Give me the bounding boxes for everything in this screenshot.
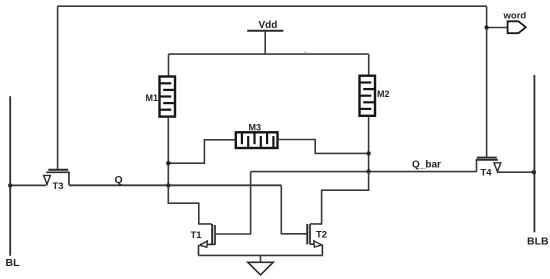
wire Q_bar main xyxy=(251,171,477,173)
svg-text:M2: M2 xyxy=(377,89,390,99)
wire word line right drop to T4 gate xyxy=(486,6,488,157)
wire tiny stub on top rail xyxy=(305,52,307,54)
wire Q left segment from BL xyxy=(10,184,46,186)
transistor T4 xyxy=(476,158,501,172)
node M2 branch / M3 junction xyxy=(366,151,370,155)
wire T4 right to BLB xyxy=(497,171,534,173)
transistor T3 xyxy=(44,170,70,186)
word output arrow xyxy=(508,21,526,33)
wire T2 gate lead from Q xyxy=(281,185,306,234)
wire BLB line xyxy=(533,75,535,232)
wire BL line xyxy=(9,96,11,256)
transistor T2 xyxy=(307,224,322,255)
wire T2 drain riser to Q_bar xyxy=(310,172,369,224)
memristor M3 xyxy=(236,132,278,148)
svg-text:M1: M1 xyxy=(146,93,159,103)
power Vdd bar xyxy=(247,30,283,32)
memristor M2 xyxy=(360,76,376,116)
wire M2 branch xyxy=(368,116,370,172)
wire word line left drop to T3 gate xyxy=(57,6,59,169)
node M1 branch / M3 junction xyxy=(166,161,170,165)
wire Q main segment xyxy=(69,184,281,186)
wire T1 drain riser to Q_bar xyxy=(215,172,251,234)
wire top rail left drop to M1 xyxy=(168,54,170,76)
svg-text:Q: Q xyxy=(115,174,123,186)
wire word output stub xyxy=(487,27,508,29)
wire source rail xyxy=(199,254,323,257)
node BL / Q junction dot xyxy=(8,183,12,187)
wire M1 branch xyxy=(167,117,169,186)
node Q_bar / M2 branch junction xyxy=(366,169,370,173)
svg-text:BL: BL xyxy=(6,257,21,269)
memristor M1 xyxy=(160,77,176,117)
wire M3 left lead xyxy=(168,140,236,163)
wire Vdd stem xyxy=(264,31,266,54)
svg-text:T4: T4 xyxy=(481,167,493,178)
wire M3 right lead xyxy=(278,140,369,154)
svg-text:M3: M3 xyxy=(249,122,262,132)
transistor T1 xyxy=(199,224,216,256)
svg-text:T1: T1 xyxy=(191,230,203,241)
wire ground stub xyxy=(260,255,262,262)
svg-text:word: word xyxy=(503,11,527,22)
node Q / M1 branch junction xyxy=(166,183,170,187)
svg-text:T2: T2 xyxy=(316,230,327,241)
svg-text:Q_bar: Q_bar xyxy=(412,160,441,171)
svg-text:T3: T3 xyxy=(53,181,64,192)
wire word line top xyxy=(57,5,486,7)
wire T1 gate lead xyxy=(168,185,211,224)
ground xyxy=(248,262,273,275)
wire top rail xyxy=(169,53,369,55)
svg-text:Vdd: Vdd xyxy=(259,20,278,31)
svg-text:BLB: BLB xyxy=(527,236,549,248)
node word junction dot xyxy=(484,25,488,29)
node BLB / T4 junction xyxy=(532,170,536,174)
wire top rail right drop to M2 xyxy=(368,54,370,76)
wire Q_bar to T4 xyxy=(476,160,478,172)
